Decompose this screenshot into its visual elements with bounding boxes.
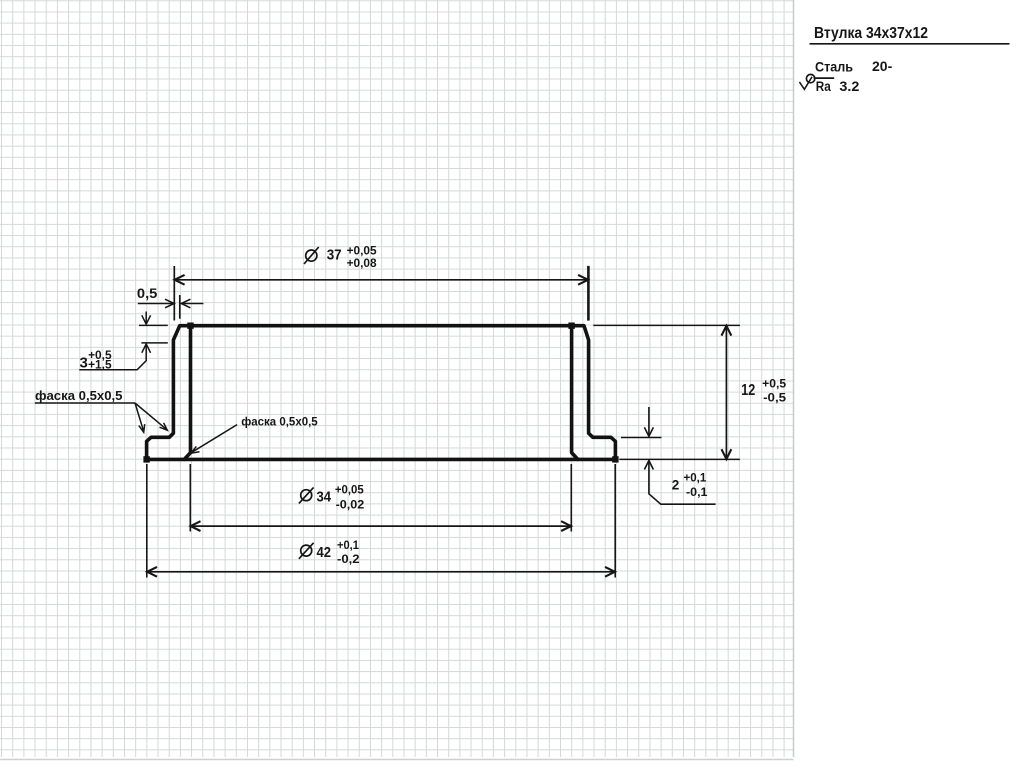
vertex marker top-right bore	[568, 323, 574, 329]
title text Vtulka 34x37x12	[814, 25, 928, 42]
svg-text:34: 34	[317, 489, 332, 506]
dimension D42 lines	[147, 464, 615, 578]
dimension 0,5 text	[137, 285, 158, 301]
svg-text:-0,5: -0,5	[763, 390, 786, 404]
dimension D34 lines	[190, 464, 571, 532]
svg-text:Ra: Ra	[816, 79, 831, 94]
svg-text:+0,5: +0,5	[762, 376, 786, 390]
dimension D34 text	[299, 483, 365, 512]
bore wall right	[572, 326, 578, 460]
dimension 2 text	[672, 473, 708, 499]
dimension 12 text	[741, 376, 786, 404]
roughness text Ra 3.2	[816, 79, 860, 94]
svg-text:+1,5: +1,5	[88, 358, 112, 372]
dimension 2 (flange step) lines	[621, 407, 716, 504]
svg-text:+0,1: +0,1	[337, 538, 359, 552]
svg-text:-0,02: -0,02	[336, 498, 365, 512]
svg-text:Сталь: Сталь	[815, 58, 853, 74]
svg-text:42: 42	[317, 544, 332, 561]
svg-text:3: 3	[80, 354, 88, 371]
svg-text:+0,08: +0,08	[347, 256, 377, 270]
vertex marker bottom-right corner	[612, 456, 618, 462]
svg-text:фаска 0,5х0,5: фаска 0,5х0,5	[35, 388, 123, 403]
chamfer label middle leader	[191, 425, 237, 454]
svg-text:+0,05: +0,05	[335, 483, 364, 497]
material text Stal 20	[815, 58, 893, 75]
dimension 12 lines	[593, 325, 740, 459]
svg-text:+0,1: +0,1	[684, 473, 707, 485]
svg-text:12: 12	[741, 382, 755, 399]
bore wall left	[184, 326, 190, 460]
svg-text:2: 2	[672, 477, 680, 492]
dimension D42 text	[299, 538, 360, 566]
svg-text:20-: 20-	[872, 58, 893, 74]
title underline	[810, 43, 1010, 45]
chamfer label left (faska 0,5x0,5)	[35, 388, 123, 403]
svg-text:37: 37	[327, 247, 342, 264]
dimension 3 (taper height) lines	[79, 312, 168, 370]
surface roughness symbol	[799, 74, 834, 89]
svg-text:0,5: 0,5	[137, 285, 158, 301]
svg-text:-0,1: -0,1	[686, 487, 708, 499]
vertex marker bottom-left corner	[143, 456, 149, 462]
svg-text:Втулка 34х37х12: Втулка 34х37х12	[814, 25, 928, 42]
chamfer label left leader lines	[35, 403, 168, 432]
vertex marker top-left bore	[187, 323, 193, 329]
dimension 0,5	[138, 295, 204, 319]
svg-text:3.2: 3.2	[839, 79, 859, 94]
dimension 3 text	[80, 348, 112, 371]
part outline (bushing section, outer profile)	[147, 326, 616, 460]
dimension D37 lines	[174, 266, 588, 321]
dimension D37 text	[304, 244, 377, 271]
svg-text:фаска 0,5х0,5: фаска 0,5х0,5	[241, 415, 318, 429]
chamfer label middle (faska 0,5x0,5)	[241, 415, 318, 429]
svg-text:-0,2: -0,2	[337, 552, 360, 566]
